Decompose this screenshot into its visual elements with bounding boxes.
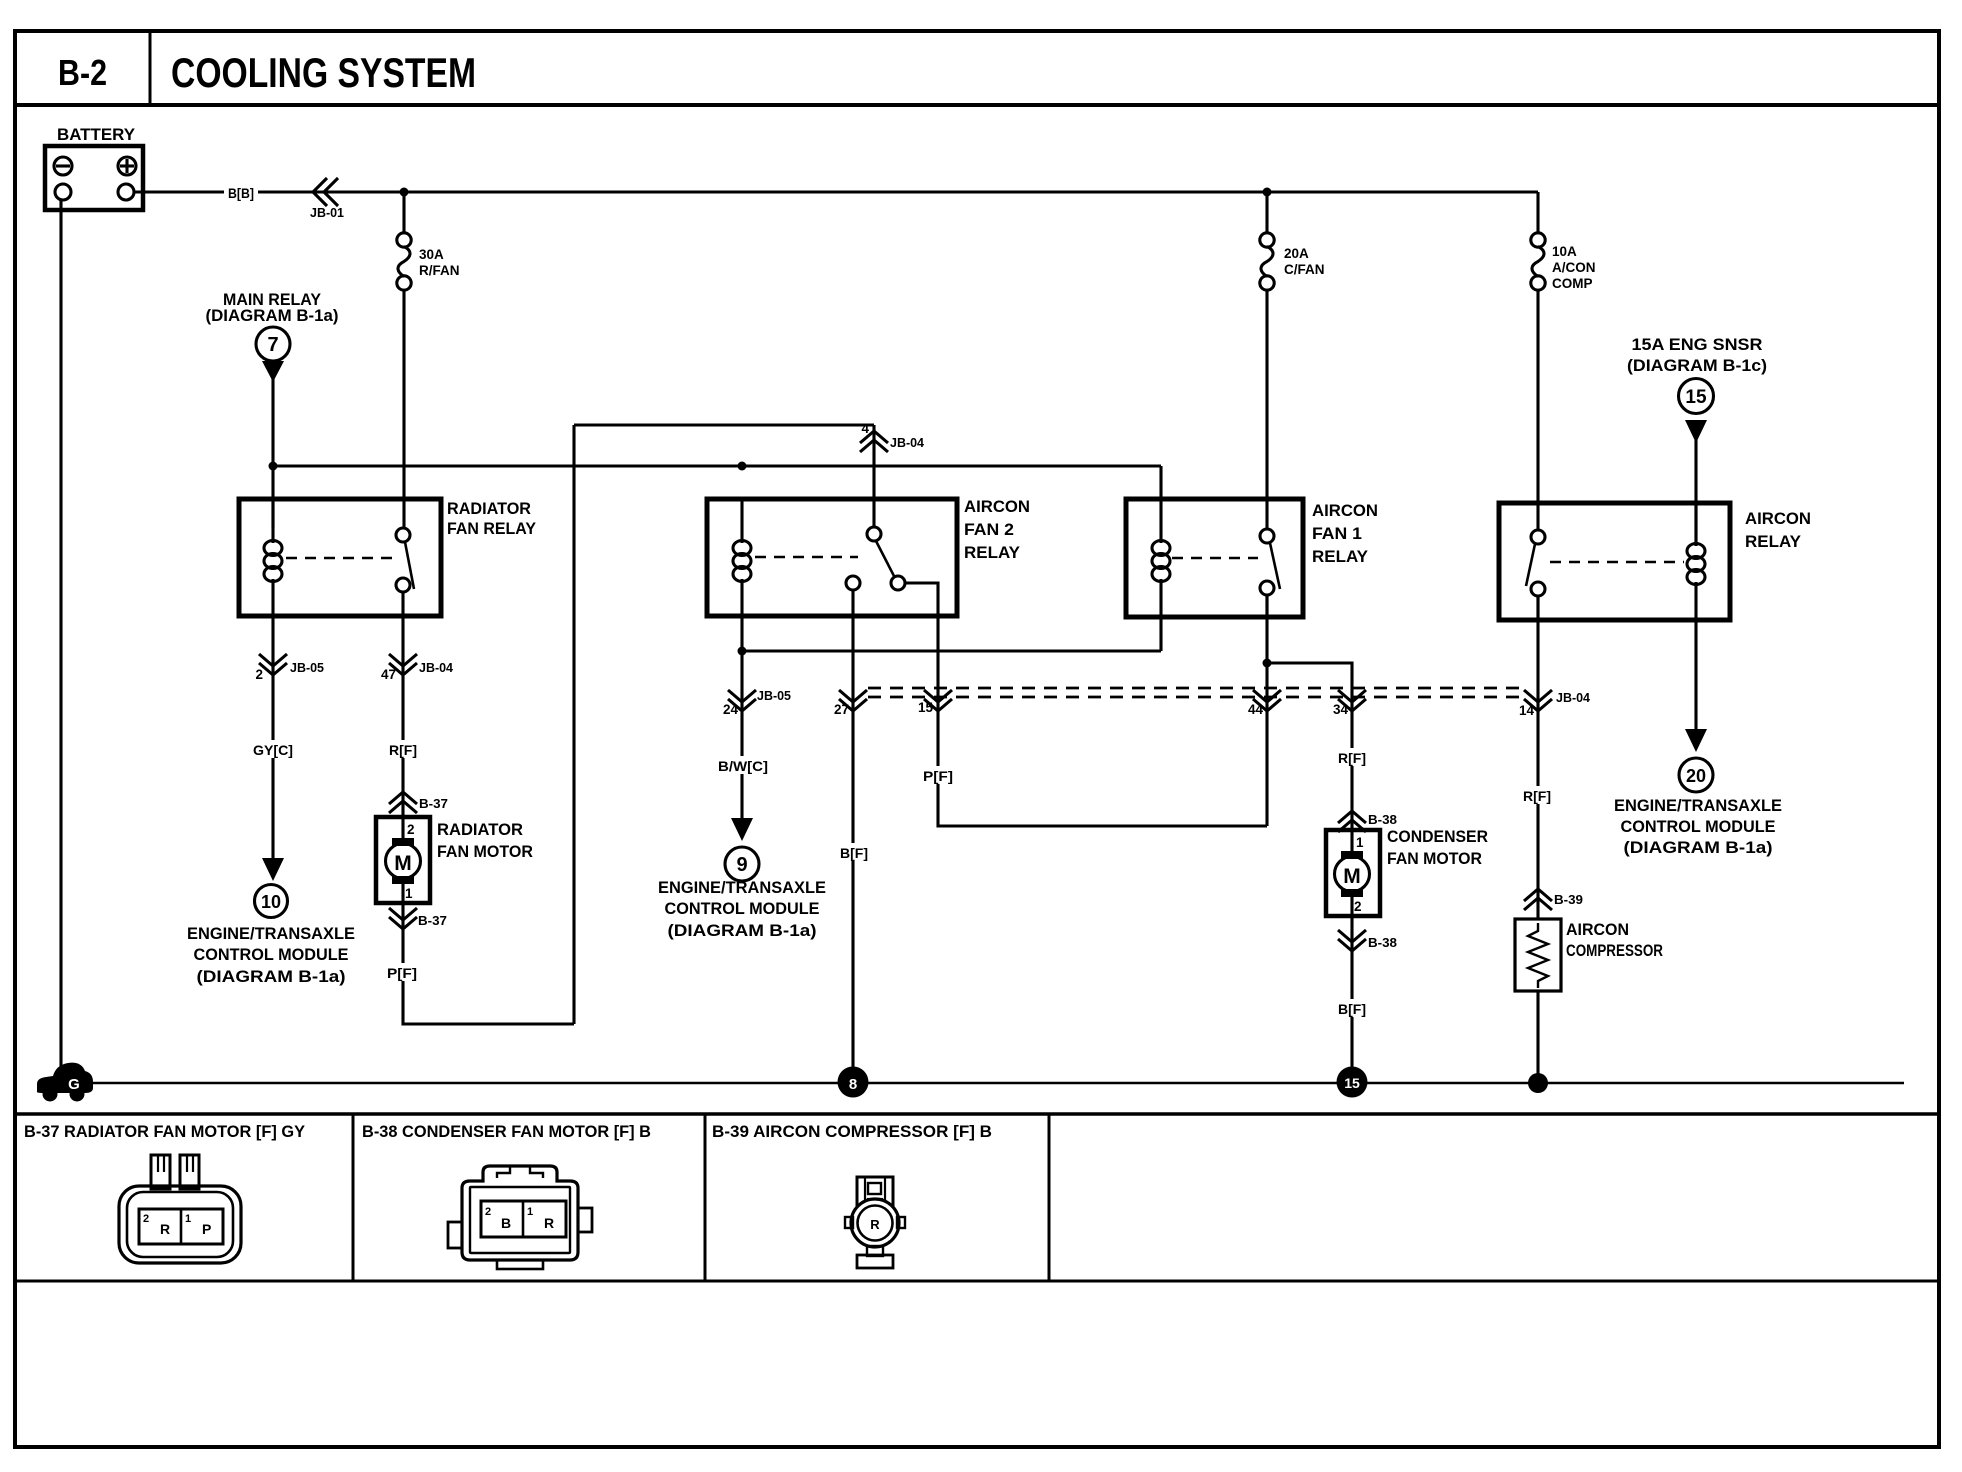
svg-text:R: R xyxy=(870,1217,880,1232)
relay AIRCON FAN 1 RELAY xyxy=(1126,499,1378,617)
ECM reference circle 20 xyxy=(1614,729,1782,857)
svg-text:P: P xyxy=(202,1221,211,1237)
svg-text:R: R xyxy=(544,1215,554,1231)
svg-text:15: 15 xyxy=(1344,1075,1360,1091)
svg-text:(DIAGRAM B-1a): (DIAGRAM B-1a) xyxy=(668,921,817,940)
switch (aircon relay) xyxy=(1531,530,1545,544)
connector table row bottom line xyxy=(15,1280,1939,1283)
wire condenser motor to ground 15 xyxy=(1350,916,1353,1072)
svg-text:A/CON: A/CON xyxy=(1552,260,1596,275)
svg-text:B-38: B-38 xyxy=(1368,812,1397,827)
svg-text:COMPRESSOR: COMPRESSOR xyxy=(1566,941,1663,960)
svg-text:2: 2 xyxy=(255,667,263,682)
svg-text:1: 1 xyxy=(1356,835,1364,850)
svg-text:GY[C]: GY[C] xyxy=(253,742,293,758)
relay actuation dashed link xyxy=(286,557,394,560)
wire radiator relay switch to radiator fan motor xyxy=(401,616,404,817)
title divider xyxy=(149,31,152,105)
svg-text:(DIAGRAM B-1c): (DIAGRAM B-1c) xyxy=(1627,356,1767,375)
wire label P[F] xyxy=(384,963,421,981)
svg-text:M: M xyxy=(1343,865,1361,888)
coil (aircon fan 1 relay) xyxy=(1152,541,1170,556)
wire JB-04 pin4 to aircon fan 2 switch xyxy=(872,425,875,527)
ground symbol G (car body ground) xyxy=(37,1063,93,1102)
motor CONDENSER FAN MOTOR xyxy=(1326,827,1488,916)
svg-text:1: 1 xyxy=(527,1206,533,1218)
connector drawing B-38 condenser fan motor xyxy=(448,1166,592,1269)
wire fuse 10A to aircon relay switch xyxy=(1536,290,1539,530)
switch (radiator fan relay) xyxy=(396,528,410,542)
svg-text:C/FAN: C/FAN xyxy=(1284,262,1325,277)
connector B-39 (to compressor) xyxy=(1524,889,1583,910)
fuse 20A C/FAN xyxy=(1260,233,1325,290)
wire contact right to drop xyxy=(905,583,938,616)
svg-text:24: 24 xyxy=(723,702,739,717)
wire label R[F] (compressor) xyxy=(1521,786,1553,804)
svg-text:RADIATOR: RADIATOR xyxy=(437,820,523,839)
wire aircon relay switch to compressor xyxy=(1536,596,1539,919)
ground node junction xyxy=(1528,1073,1548,1093)
connector JB-04 pin 14 xyxy=(1519,690,1591,718)
svg-text:9: 9 xyxy=(736,854,747,876)
svg-text:2: 2 xyxy=(143,1213,149,1225)
relay actuation dashed link xyxy=(755,556,858,559)
svg-text:AIRCON: AIRCON xyxy=(1745,509,1811,528)
switch blade xyxy=(876,541,895,578)
svg-text:FAN RELAY: FAN RELAY xyxy=(447,519,537,538)
switch common (aircon fan 2 relay) xyxy=(867,527,881,541)
connector JB-05 pin 2 xyxy=(255,654,324,682)
wire battery B+ feed (top bus y=192) xyxy=(134,190,224,193)
svg-text:20: 20 xyxy=(1686,766,1706,786)
connector JB-05 pin 27 xyxy=(834,690,867,717)
aircon compressor (clutch coil) xyxy=(1515,919,1663,991)
ECM reference circle 9 xyxy=(658,818,826,940)
wire label B[F] xyxy=(838,843,870,861)
svg-text:8: 8 xyxy=(849,1076,857,1093)
svg-text:JB-04: JB-04 xyxy=(419,660,454,675)
svg-text:4: 4 xyxy=(861,421,869,436)
relay AIRCON RELAY xyxy=(1499,503,1811,620)
svg-text:ENGINE/TRANSAXLE: ENGINE/TRANSAXLE xyxy=(187,924,355,943)
svg-text:R[F]: R[F] xyxy=(1523,788,1551,804)
wire battery negative down to ground G xyxy=(59,200,62,1066)
svg-text:B[F]: B[F] xyxy=(1338,1001,1366,1017)
ground node 15 xyxy=(1337,1067,1368,1098)
ground bus xyxy=(90,1082,1904,1085)
wire aircon fan1 switch output xyxy=(1265,595,1268,826)
coil (aircon relay, mirrored) xyxy=(1694,503,1697,546)
svg-text:44: 44 xyxy=(1248,702,1264,717)
node coil return join xyxy=(738,647,747,656)
table divider 3 xyxy=(1048,1114,1051,1281)
wire corner down to 10A fuse xyxy=(1536,192,1539,234)
svg-text:47: 47 xyxy=(381,667,396,682)
svg-text:CONTROL MODULE: CONTROL MODULE xyxy=(665,899,820,918)
wire main relay to coil feed node xyxy=(271,378,274,528)
svg-text:R[F]: R[F] xyxy=(389,742,417,758)
svg-text:B-38: B-38 xyxy=(1368,935,1397,950)
connector JB-04 pin 34 xyxy=(1333,690,1366,717)
wire corner down into aircon fan 1 relay coil xyxy=(1159,466,1162,543)
svg-text:RADIATOR: RADIATOR xyxy=(447,499,531,518)
ground node 8 xyxy=(838,1067,869,1098)
main relay reference (circle 7) xyxy=(206,290,339,382)
relay AIRCON FAN 2 RELAY xyxy=(707,497,1030,616)
fuse 15A ENG SNSR reference (circle 15) xyxy=(1627,335,1767,443)
svg-text:CONTROL MODULE: CONTROL MODULE xyxy=(1621,817,1776,836)
svg-text:1: 1 xyxy=(185,1213,191,1225)
svg-text:27: 27 xyxy=(834,702,849,717)
wire label P[F] xyxy=(920,766,957,784)
switch contact left xyxy=(846,576,860,590)
svg-text:COOLING SYSTEM: COOLING SYSTEM xyxy=(171,49,476,96)
svg-text:CONDENSER: CONDENSER xyxy=(1387,827,1488,846)
svg-text:34: 34 xyxy=(1333,702,1349,717)
svg-text:COMP: COMP xyxy=(1552,276,1593,291)
svg-text:14: 14 xyxy=(1519,703,1535,718)
node coil feed branch xyxy=(269,462,278,471)
svg-text:AIRCON: AIRCON xyxy=(964,497,1030,516)
svg-text:10: 10 xyxy=(261,892,281,912)
svg-text:B: B xyxy=(501,1215,511,1231)
svg-text:7: 7 xyxy=(267,334,278,356)
connector table top line xyxy=(15,1112,1939,1116)
svg-text:B[F]: B[F] xyxy=(840,845,868,861)
svg-text:(DIAGRAM B-1a): (DIAGRAM B-1a) xyxy=(197,967,346,986)
svg-text:B/W[C]: B/W[C] xyxy=(718,758,768,774)
svg-text:(DIAGRAM B-1a): (DIAGRAM B-1a) xyxy=(1624,838,1773,857)
svg-text:B-2: B-2 xyxy=(58,52,107,93)
svg-text:B-38 CONDENSER FAN MOTOR [F] B: B-38 CONDENSER FAN MOTOR [F] B xyxy=(362,1122,651,1141)
wire eng snsr to aircon relay coil xyxy=(1694,438,1697,546)
switch (aircon fan 1 relay) xyxy=(1260,529,1274,543)
svg-text:JB-04: JB-04 xyxy=(1556,690,1591,705)
title bar bottom line xyxy=(15,103,1939,107)
svg-text:FAN MOTOR: FAN MOTOR xyxy=(437,842,533,861)
node fan1 output branch xyxy=(1263,659,1272,668)
wire branch to condenser fan motor xyxy=(1267,663,1352,830)
svg-text:R: R xyxy=(160,1221,170,1237)
ECM reference circle 10 xyxy=(187,858,355,986)
relay RADIATOR FAN RELAY xyxy=(239,499,537,616)
svg-text:10A: 10A xyxy=(1552,244,1577,259)
svg-text:RELAY: RELAY xyxy=(964,543,1021,562)
wire fuse 20A to aircon fan 1 relay switch xyxy=(1265,290,1268,529)
wire motor pin1 P[F] loop to JB-04 pin 4 xyxy=(403,903,574,1024)
svg-text:B-37: B-37 xyxy=(418,913,447,928)
svg-text:M: M xyxy=(394,852,412,875)
connector JB-05 pin 15 xyxy=(918,690,952,715)
svg-text:15: 15 xyxy=(918,700,934,715)
svg-text:30A: 30A xyxy=(419,247,444,262)
svg-text:P[F]: P[F] xyxy=(387,965,417,981)
wire label R[F] (condenser) xyxy=(1336,748,1368,766)
svg-text:R/FAN: R/FAN xyxy=(419,263,460,278)
wire drop to 30A fuse xyxy=(402,192,405,234)
relay actuation dashed link xyxy=(1172,557,1258,560)
svg-text:JB-05: JB-05 xyxy=(290,660,324,675)
connector drawing B-37 radiator fan motor xyxy=(119,1155,241,1263)
wire label B/W[C] xyxy=(716,756,770,774)
coil (aircon fan 2 relay) xyxy=(740,499,743,543)
node junction at fuse 30A xyxy=(400,188,409,197)
svg-text:1: 1 xyxy=(405,886,413,901)
connector JB-01 (in-line, pointing left) xyxy=(310,178,344,220)
wire label GY[C] xyxy=(251,740,295,758)
battery xyxy=(45,125,143,210)
svg-text:AIRCON: AIRCON xyxy=(1312,501,1378,520)
svg-text:FAN 1: FAN 1 xyxy=(1312,524,1362,543)
svg-text:CONTROL MODULE: CONTROL MODULE xyxy=(194,945,349,964)
wire fuse 30A to radiator fan relay xyxy=(402,290,405,528)
svg-text:2: 2 xyxy=(407,822,415,837)
fuse 10A A/CON COMP xyxy=(1531,233,1596,291)
connector B-37 (to motor) xyxy=(389,792,448,813)
switch contact right xyxy=(891,576,905,590)
svg-text:B-39: B-39 xyxy=(1554,892,1583,907)
wire aircon relay coil to ECM pin 20 xyxy=(1694,620,1697,730)
coil (radiator fan relay) xyxy=(271,499,274,543)
connector B-38 (motor pin 2 side) xyxy=(1338,930,1397,951)
wire coil return bus to aircon fan1 coil xyxy=(742,649,1161,652)
svg-text:(DIAGRAM B-1a): (DIAGRAM B-1a) xyxy=(206,306,339,325)
wire coil feed bus y=466 xyxy=(273,464,1161,467)
svg-text:2: 2 xyxy=(1354,899,1362,914)
svg-text:P[F]: P[F] xyxy=(923,768,953,784)
wire aircon fan2 contact right / P[F] to pin 44 link xyxy=(938,616,1267,826)
node junction at fuse 20A xyxy=(1263,188,1272,197)
svg-text:2: 2 xyxy=(485,1206,491,1218)
relay actuation dashed link xyxy=(1550,561,1684,564)
svg-text:FAN 2: FAN 2 xyxy=(964,520,1014,539)
svg-text:B-37 RADIATOR FAN MOTOR [F] GY: B-37 RADIATOR FAN MOTOR [F] GY xyxy=(24,1122,306,1141)
wire aircon fan2 coil to node xyxy=(740,616,743,820)
svg-text:B[B]: B[B] xyxy=(228,186,254,201)
wire label R[F] xyxy=(387,740,419,758)
svg-text:ENGINE/TRANSAXLE: ENGINE/TRANSAXLE xyxy=(1614,796,1782,815)
wire radiator relay coil to ECM pin 2 xyxy=(271,616,274,858)
svg-text:RELAY: RELAY xyxy=(1745,532,1802,551)
node aircon fan 2 coil feed xyxy=(738,462,747,471)
svg-text:JB-04: JB-04 xyxy=(890,435,925,450)
table divider 1 xyxy=(352,1114,355,1281)
wire drop to 20A fuse xyxy=(1265,192,1268,234)
svg-text:B-37: B-37 xyxy=(419,796,448,811)
motor RADIATOR FAN MOTOR xyxy=(376,817,533,903)
connector JB-05 pin 24 xyxy=(723,688,791,717)
svg-text:ENGINE/TRANSAXLE: ENGINE/TRANSAXLE xyxy=(658,878,826,897)
fuse 30A R/FAN xyxy=(397,233,460,290)
svg-text:15A ENG SNSR: 15A ENG SNSR xyxy=(1632,335,1763,354)
svg-text:AIRCON: AIRCON xyxy=(1566,920,1629,939)
connector JB-04 pin 47 xyxy=(381,654,454,682)
wire compressor to ground xyxy=(1536,991,1539,1083)
connector drawing B-39 aircon compressor xyxy=(845,1177,905,1268)
connector B-38 (to condenser motor) xyxy=(1338,811,1397,832)
svg-text:15: 15 xyxy=(1685,387,1707,408)
svg-text:RELAY: RELAY xyxy=(1312,547,1369,566)
svg-text:JB-05: JB-05 xyxy=(757,688,791,703)
wire aircon fan2 contact left to ground 8 xyxy=(851,590,854,1072)
connector JB-04 pin 4 xyxy=(860,421,925,452)
svg-text:B-39 AIRCON COMPRESSOR [F] B: B-39 AIRCON COMPRESSOR [F] B xyxy=(712,1122,992,1141)
svg-text:R[F]: R[F] xyxy=(1338,750,1366,766)
svg-text:20A: 20A xyxy=(1284,246,1309,261)
svg-text:G: G xyxy=(68,1076,80,1093)
wire label B[F] (condenser) xyxy=(1336,999,1368,1017)
harness dashed pair xyxy=(868,688,1523,697)
svg-text:FAN MOTOR: FAN MOTOR xyxy=(1387,849,1482,868)
table divider 2 xyxy=(704,1114,707,1281)
svg-text:BATTERY: BATTERY xyxy=(57,125,136,144)
svg-text:JB-01: JB-01 xyxy=(310,205,344,220)
connector JB-04 pin 44 xyxy=(1248,690,1281,717)
connector B-37 (motor pin 1 side) xyxy=(389,908,447,929)
